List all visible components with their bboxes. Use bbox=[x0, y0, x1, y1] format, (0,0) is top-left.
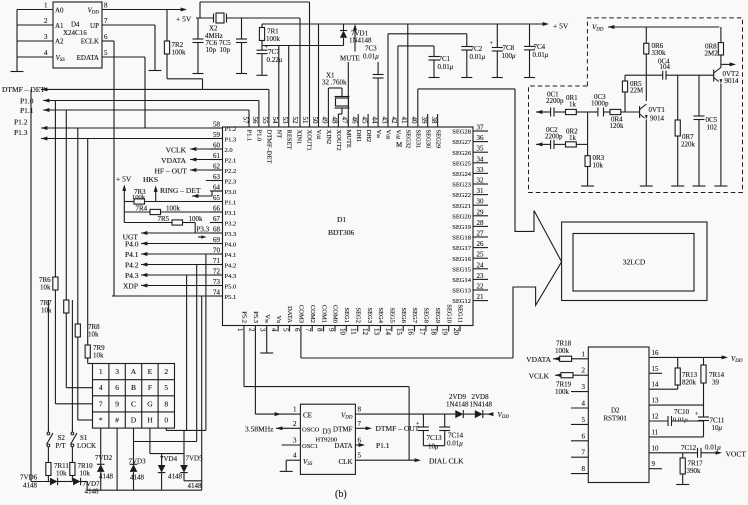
D2 pin12 wire with 7C10 bbox=[649, 420, 668, 422]
resistor 0R5 22M bbox=[624, 75, 626, 81]
D2 pin 3 stub bbox=[571, 391, 588, 393]
IC D4 X24C16 bbox=[53, 2, 102, 68]
svg-text:1: 1 bbox=[582, 350, 586, 358]
svg-text:13: 13 bbox=[652, 397, 660, 405]
svg-text:0.01μ: 0.01μ bbox=[470, 53, 486, 61]
D1 pin 58 P1.2 bbox=[210, 127, 223, 129]
svg-text:P4.1: P4.1 bbox=[225, 252, 237, 259]
wire DTMF-DET dropper far left bbox=[30, 89, 32, 481]
svg-text:SEG5: SEG5 bbox=[389, 307, 396, 323]
svg-text:68: 68 bbox=[213, 226, 221, 234]
D1 pin 70 P4.1 bbox=[210, 253, 223, 255]
svg-text:48: 48 bbox=[331, 117, 339, 125]
D1 pin 36 SEG27 bbox=[473, 141, 488, 143]
D1 pin 20 SEG11 bbox=[459, 326, 461, 332]
wire pin70 dropper bbox=[205, 254, 207, 430]
resistor 7R1 100k bbox=[261, 24, 263, 28]
wire pin57 P1.1 bbox=[248, 110, 250, 127]
diode 2VD8 1N4148 bbox=[475, 410, 483, 418]
wire pin43 to 7C2 bbox=[387, 34, 389, 127]
svg-text:1: 1 bbox=[293, 406, 297, 414]
resistor 7R17 390k bbox=[682, 453, 684, 458]
IC D2 RST901 bbox=[588, 347, 649, 483]
D1 pin 22 SEG13 bbox=[473, 289, 488, 291]
svg-text:D2: D2 bbox=[611, 407, 620, 415]
D4 pin 5 wire EDATA bbox=[102, 56, 145, 58]
resistor 7R14 39 bbox=[703, 357, 705, 365]
D1 pin 66 P3.1 bbox=[210, 211, 223, 213]
resistor 0R6 330k bbox=[645, 27, 647, 43]
svg-text:P5.0: P5.0 bbox=[225, 284, 237, 291]
svg-text:DIAL CLK: DIAL CLK bbox=[429, 457, 464, 466]
svg-text:8: 8 bbox=[164, 399, 168, 408]
input arrow 0C2 bbox=[536, 142, 542, 146]
svg-text:SEG8: SEG8 bbox=[423, 307, 430, 323]
svg-text:7C3: 7C3 bbox=[365, 45, 377, 53]
svg-text:XIN2: XIN2 bbox=[325, 130, 332, 145]
D1 pin 59 P1.3 bbox=[210, 138, 223, 140]
svg-text:47: 47 bbox=[341, 117, 349, 125]
svg-text:P1.1: P1.1 bbox=[246, 130, 253, 142]
wire pin54 NT to reset node bbox=[278, 46, 280, 128]
svg-text:X24C16: X24C16 bbox=[63, 29, 87, 37]
D3 pin6 DATA to P1.1 bbox=[355, 444, 362, 446]
svg-text:0.01μ: 0.01μ bbox=[363, 53, 379, 61]
ground 7R17 bbox=[676, 484, 689, 486]
D2 pin16 VDD wire bbox=[649, 356, 725, 358]
svg-text:51: 51 bbox=[301, 117, 309, 125]
svg-text:26: 26 bbox=[477, 240, 485, 248]
svg-text:820k: 820k bbox=[682, 379, 697, 387]
svg-text:SEG4: SEG4 bbox=[377, 307, 384, 323]
resistor 7R7 10k bbox=[64, 300, 69, 313]
svg-text:4: 4 bbox=[44, 49, 48, 57]
svg-text:F: F bbox=[148, 383, 152, 392]
capacitor 7C4 0.01u bbox=[529, 24, 531, 46]
svg-text:3: 3 bbox=[582, 383, 586, 391]
wire ECLK vertical to P5.1 row bbox=[113, 41, 115, 296]
svg-text:SEG15: SEG15 bbox=[452, 266, 471, 273]
resistor 7R19 100k bbox=[561, 373, 573, 378]
svg-text:120k: 120k bbox=[610, 122, 625, 130]
ground 0C5 bbox=[693, 185, 706, 187]
svg-text:57: 57 bbox=[241, 117, 249, 125]
svg-text:P5.3: P5.3 bbox=[252, 311, 259, 323]
D2 pin 15 stub bbox=[649, 372, 662, 374]
svg-text:SEG22: SEG22 bbox=[452, 192, 471, 199]
resistor 0R7 220k bbox=[677, 75, 679, 120]
svg-text:VDD: VDD bbox=[341, 412, 353, 421]
svg-text:7: 7 bbox=[304, 328, 312, 332]
svg-text:SEG27: SEG27 bbox=[452, 139, 472, 146]
wire pin71 dropper bbox=[196, 265, 198, 442]
svg-text:31: 31 bbox=[477, 187, 485, 195]
svg-text:XDP: XDP bbox=[123, 282, 138, 291]
svg-text:HF – OUT: HF – OUT bbox=[154, 167, 187, 176]
svg-text:VDD: VDD bbox=[731, 355, 743, 364]
+5V supply label bbox=[181, 8, 187, 12]
svg-text:P1.1: P1.1 bbox=[20, 106, 34, 115]
D4 pin 7 wire UP bbox=[102, 24, 155, 26]
svg-text:HKS: HKS bbox=[143, 175, 158, 184]
svg-text:Vss: Vss bbox=[263, 314, 270, 323]
svg-text:39: 39 bbox=[712, 379, 720, 387]
ground UP bbox=[149, 70, 162, 72]
ground D3 bbox=[280, 470, 293, 472]
svg-text:22: 22 bbox=[477, 283, 485, 291]
svg-text:10k: 10k bbox=[56, 470, 67, 478]
svg-text:SEG25: SEG25 bbox=[452, 160, 471, 167]
svg-text:RING – DET: RING – DET bbox=[160, 186, 201, 195]
D1 pin 16 SEG7 bbox=[414, 326, 416, 332]
LCD display 32LCD bbox=[562, 222, 707, 301]
wire pin53 RESET bbox=[288, 46, 290, 128]
D1 pin 28 SEG19 bbox=[473, 225, 488, 227]
svg-text:SEG19: SEG19 bbox=[452, 224, 471, 231]
input arrow 0C1 bbox=[536, 110, 542, 114]
svg-text:4: 4 bbox=[99, 383, 103, 392]
svg-text:#: # bbox=[115, 416, 119, 425]
D1 pin 65 P1.1 bbox=[210, 201, 223, 203]
svg-text:SEG30: SEG30 bbox=[424, 130, 431, 149]
diode 2VD9 1N4148 bbox=[455, 410, 463, 418]
svg-text:12: 12 bbox=[361, 328, 369, 336]
D1 pin 64 P3.0 bbox=[210, 190, 223, 192]
svg-text:COM3: COM3 bbox=[298, 305, 305, 323]
diode 7VD1 1N4148 bbox=[343, 24, 345, 31]
svg-text:SEG29: SEG29 bbox=[434, 130, 441, 149]
svg-text:P3.1: P3.1 bbox=[225, 210, 237, 217]
svg-text:Vdd: Vdd bbox=[315, 130, 322, 140]
svg-text:17: 17 bbox=[418, 328, 426, 336]
svg-text:SEG31: SEG31 bbox=[415, 130, 422, 149]
svg-text:DH2: DH2 bbox=[365, 130, 372, 143]
D1 pin 72 P4.3 bbox=[210, 274, 223, 276]
svg-text:SEG26: SEG26 bbox=[452, 150, 472, 157]
svg-text:0.01μ: 0.01μ bbox=[533, 51, 549, 59]
svg-text:67: 67 bbox=[213, 215, 221, 223]
svg-text:Vtt: Vtt bbox=[275, 316, 282, 324]
svg-text:0.01μ: 0.01μ bbox=[705, 444, 721, 452]
wire link 441 bbox=[134, 441, 197, 443]
svg-text:S1: S1 bbox=[80, 434, 88, 442]
D2 pin 8 stub bbox=[571, 473, 588, 475]
D1 pin 37 SEG28 bbox=[473, 130, 488, 132]
svg-text:20: 20 bbox=[452, 328, 460, 336]
D1 pin 73 P5.0 bbox=[210, 285, 223, 287]
svg-text:*: * bbox=[99, 416, 103, 425]
svg-text:SEG14: SEG14 bbox=[452, 277, 472, 284]
D1 pin 27 SEG18 bbox=[473, 236, 488, 238]
svg-text:C: C bbox=[131, 399, 136, 408]
capacitor 0C5 102 bbox=[698, 75, 700, 116]
D1 pin 19 SEG10 bbox=[448, 326, 450, 332]
svg-text:2: 2 bbox=[44, 17, 48, 25]
D1 pin 4 VTT bbox=[277, 326, 279, 332]
svg-text:2200p: 2200p bbox=[545, 133, 563, 141]
svg-text:7C4: 7C4 bbox=[534, 43, 546, 51]
svg-text:D4: D4 bbox=[71, 21, 80, 29]
svg-text:100k: 100k bbox=[166, 205, 181, 213]
wire Vss pin3 ground bbox=[266, 326, 268, 353]
svg-text:21: 21 bbox=[477, 293, 485, 301]
svg-text:D1: D1 bbox=[337, 215, 346, 224]
wire pin63 stub bbox=[206, 180, 223, 182]
svg-text:2: 2 bbox=[247, 328, 255, 332]
D1 pin 15 SEG6 bbox=[402, 326, 404, 332]
LCD bus arrow bbox=[515, 89, 562, 262]
wire row3 entry bbox=[55, 403, 92, 405]
wire pin51 XOUT1 bbox=[309, 2, 311, 127]
wire 7R2 bottom to DTMF-DET line bbox=[167, 78, 203, 80]
D3 pin5 CLK DIAL CLK bbox=[355, 459, 418, 461]
ground 7C6 bbox=[193, 73, 204, 75]
wire keypad col1 dropper bbox=[100, 428, 102, 464]
D2 pin10 wire with 7C12 bbox=[649, 452, 698, 454]
svg-text:P1.1: P1.1 bbox=[376, 441, 390, 450]
svg-text:P1.0: P1.0 bbox=[256, 130, 263, 142]
D1 pin 63 P2.3 bbox=[210, 180, 223, 182]
svg-text:10k: 10k bbox=[593, 162, 604, 170]
svg-text:100k: 100k bbox=[189, 215, 204, 223]
svg-text:MUTE: MUTE bbox=[345, 130, 352, 148]
svg-text:43: 43 bbox=[380, 117, 388, 125]
svg-text:44: 44 bbox=[370, 117, 378, 125]
D1 pin 24 SEG15 bbox=[473, 268, 488, 270]
D1 pin 14 SEG5 bbox=[391, 326, 393, 332]
transistor 0VT1 9014 bbox=[639, 106, 641, 118]
capacitor 7C8 100u bbox=[496, 24, 498, 48]
D2 pin13 wire bbox=[649, 404, 704, 406]
ground 7C1 bbox=[429, 77, 440, 79]
switch S2 P/T bbox=[47, 300, 49, 432]
ground 7C8 bbox=[492, 77, 503, 79]
svg-text:COM1: COM1 bbox=[320, 305, 327, 323]
resistor 7R2 bbox=[166, 10, 168, 42]
svg-text:P4.0: P4.0 bbox=[225, 242, 237, 249]
svg-text:SEG2: SEG2 bbox=[354, 307, 361, 323]
keypad matrix bbox=[93, 364, 175, 429]
svg-text:SEG9: SEG9 bbox=[434, 307, 441, 323]
svg-text:100k: 100k bbox=[132, 194, 146, 201]
svg-text:5: 5 bbox=[104, 49, 108, 57]
svg-text:A2: A2 bbox=[55, 38, 64, 46]
wire pin56 P1.0 bbox=[258, 101, 260, 128]
svg-text:H: H bbox=[147, 416, 153, 425]
capacitor 7C14 0.01u bbox=[444, 414, 446, 427]
svg-text:7C14: 7C14 bbox=[448, 432, 464, 440]
svg-text:34: 34 bbox=[477, 155, 485, 163]
svg-text:VCLK: VCLK bbox=[529, 372, 550, 381]
resistor 7R5 100k bbox=[124, 222, 172, 224]
svg-text:XOUT1: XOUT1 bbox=[305, 130, 312, 151]
svg-text:60: 60 bbox=[213, 142, 221, 150]
capacitor 7C3 0.01u on pin44 bbox=[377, 62, 379, 75]
D1 pin 34 SEG25 bbox=[473, 162, 488, 164]
svg-text:OSC1: OSC1 bbox=[302, 443, 318, 450]
svg-text:2.0: 2.0 bbox=[225, 147, 233, 154]
svg-text:0VT1: 0VT1 bbox=[649, 106, 666, 114]
svg-text:72: 72 bbox=[213, 268, 221, 276]
svg-text:SEG16: SEG16 bbox=[452, 256, 472, 263]
capacitor 7C7 0.22u bbox=[261, 46, 263, 51]
svg-text:37: 37 bbox=[477, 124, 485, 132]
wire UP to ground bbox=[154, 25, 156, 70]
svg-text:P5.1: P5.1 bbox=[225, 294, 237, 301]
capacitor 0C3 1000p bbox=[588, 111, 598, 113]
svg-text:SEG17: SEG17 bbox=[452, 245, 472, 252]
svg-text:7C2: 7C2 bbox=[471, 45, 483, 53]
diode 7VD4 4148 bbox=[161, 454, 163, 465]
svg-text:UP: UP bbox=[90, 22, 99, 30]
svg-text:2200p: 2200p bbox=[546, 97, 564, 105]
svg-text:100μ: 100μ bbox=[502, 52, 517, 60]
svg-text:7: 7 bbox=[99, 399, 103, 408]
svg-text:NT: NT bbox=[276, 130, 283, 139]
svg-text:15: 15 bbox=[652, 365, 660, 373]
crystal X1 32.768k bbox=[327, 88, 329, 127]
svg-text:104: 104 bbox=[660, 63, 671, 71]
svg-text:49: 49 bbox=[321, 117, 329, 125]
svg-text:100k: 100k bbox=[555, 347, 570, 355]
D1 pin 67 P3.2 bbox=[210, 222, 223, 224]
D1 pin 11 SEG2 bbox=[357, 326, 359, 332]
D2 pin 7 stub bbox=[571, 456, 588, 458]
svg-text:7: 7 bbox=[358, 420, 362, 428]
svg-text:16: 16 bbox=[652, 349, 660, 357]
svg-text:7VD3: 7VD3 bbox=[129, 458, 147, 466]
D2 pin14 wire bbox=[649, 388, 678, 390]
wire EDATA vertical to P1.2 row bbox=[144, 57, 146, 128]
svg-text:15: 15 bbox=[395, 328, 403, 336]
capacitor 7C2 0.01u bbox=[466, 34, 468, 47]
svg-text:45: 45 bbox=[361, 117, 369, 125]
wire input junction bbox=[587, 112, 589, 144]
svg-text:SEG3: SEG3 bbox=[366, 307, 373, 323]
svg-text:14: 14 bbox=[652, 381, 660, 389]
svg-text:4: 4 bbox=[582, 400, 586, 408]
wire pin72 dropper bbox=[186, 275, 188, 430]
svg-text:2: 2 bbox=[164, 367, 168, 376]
resistor 0R1 1k bbox=[566, 109, 577, 114]
svg-text:DH1: DH1 bbox=[355, 130, 362, 143]
svg-text:0.01μ: 0.01μ bbox=[673, 417, 688, 424]
svg-text:19: 19 bbox=[441, 328, 449, 336]
svg-text:1k: 1k bbox=[569, 101, 577, 109]
svg-text:71: 71 bbox=[213, 257, 221, 265]
svg-text:P4.3: P4.3 bbox=[225, 273, 237, 280]
svg-text:70: 70 bbox=[213, 247, 221, 255]
svg-text:(b): (b) bbox=[335, 489, 347, 500]
svg-text:P/T: P/T bbox=[56, 442, 67, 450]
svg-text:4: 4 bbox=[293, 452, 297, 460]
svg-text:390k: 390k bbox=[687, 467, 702, 475]
svg-text:10k: 10k bbox=[80, 470, 91, 478]
svg-text:D3: D3 bbox=[323, 428, 332, 436]
svg-text:55: 55 bbox=[261, 117, 269, 125]
D4 pin 2 wire A1 bbox=[17, 24, 53, 26]
D3 pin4 Vss bbox=[286, 459, 300, 461]
wire pin47 MUTE bbox=[347, 62, 349, 127]
ground 0VT2 bbox=[714, 185, 727, 187]
svg-text:42: 42 bbox=[390, 117, 398, 125]
svg-text:VDD: VDD bbox=[592, 24, 604, 33]
svg-text:VDATA: VDATA bbox=[161, 156, 186, 165]
svg-text:4148: 4148 bbox=[188, 482, 203, 490]
D4 pin 4 wire Vss bbox=[17, 56, 53, 58]
svg-text:30: 30 bbox=[477, 198, 485, 206]
svg-text:2: 2 bbox=[582, 367, 586, 375]
+5V rail arrow label bbox=[543, 22, 549, 26]
resistor 0R8 2M2 bbox=[720, 27, 722, 43]
D3 pin3 OSCI stub bbox=[282, 444, 301, 446]
svg-text:DTMF–DET: DTMF–DET bbox=[266, 130, 273, 164]
diode 7VD5 4148 bbox=[183, 430, 185, 465]
svg-text:50: 50 bbox=[311, 117, 319, 125]
D3 pin7 DTMF-OUT bbox=[355, 427, 369, 429]
wire pin40 SEG31 to LCD bus bbox=[417, 89, 419, 127]
svg-text:P2.1: P2.1 bbox=[225, 158, 237, 165]
resistor 7R4 100k bbox=[124, 211, 150, 213]
svg-text:1000p: 1000p bbox=[591, 100, 609, 108]
D1 pin 12 SEG3 bbox=[368, 326, 370, 332]
wire pin50 VDD to rail bbox=[318, 24, 320, 127]
svg-text:1N4148: 1N4148 bbox=[470, 401, 493, 409]
svg-text:SEG7: SEG7 bbox=[411, 307, 418, 323]
svg-text:P4.0: P4.0 bbox=[125, 240, 139, 249]
svg-text:CLK: CLK bbox=[339, 458, 353, 466]
svg-text:SEG10: SEG10 bbox=[445, 304, 452, 323]
svg-text:9: 9 bbox=[327, 328, 335, 332]
svg-text:28: 28 bbox=[477, 219, 485, 227]
wire P1.1 dropper bbox=[65, 110, 67, 300]
svg-text:S2: S2 bbox=[58, 434, 66, 442]
D1 pin 60 2.0 bbox=[210, 148, 223, 150]
svg-text:6: 6 bbox=[582, 432, 586, 440]
svg-text:10μ: 10μ bbox=[428, 443, 439, 451]
svg-text:24: 24 bbox=[477, 261, 485, 269]
svg-text:7VD6: 7VD6 bbox=[20, 474, 38, 482]
svg-text:7R4: 7R4 bbox=[136, 205, 148, 213]
svg-text:VSS: VSS bbox=[303, 458, 313, 467]
svg-text:Vdd: Vdd bbox=[385, 130, 392, 140]
svg-text:P1.3: P1.3 bbox=[225, 137, 237, 144]
resistor 7R3 100k bbox=[124, 201, 134, 203]
svg-text:VCLK: VCLK bbox=[166, 146, 187, 155]
capacitor 7C1 0.01u bbox=[433, 46, 435, 57]
wire link 480 bbox=[184, 480, 202, 482]
svg-text:+ 5V: + 5V bbox=[553, 22, 569, 31]
svg-text:P1.2: P1.2 bbox=[14, 118, 28, 127]
svg-text:6: 6 bbox=[104, 33, 108, 41]
capacitor 7C11 10u bbox=[698, 416, 709, 418]
D1 pin 21 SEG12 bbox=[473, 300, 488, 302]
D2 pin11 wire bbox=[649, 436, 704, 438]
svg-text:10k: 10k bbox=[41, 307, 52, 315]
svg-text:9014: 9014 bbox=[725, 77, 740, 85]
svg-text:56: 56 bbox=[251, 117, 259, 125]
svg-text:40: 40 bbox=[410, 117, 418, 125]
resistor 0R3 10k bbox=[587, 144, 589, 155]
svg-text:Vdd: Vdd bbox=[395, 130, 402, 140]
svg-text:RST901: RST901 bbox=[604, 415, 628, 423]
D1 pin 9 COM0 bbox=[334, 326, 336, 332]
svg-text:4148: 4148 bbox=[130, 474, 145, 482]
wire pin52 XIN1 bbox=[299, 18, 301, 127]
svg-text:13: 13 bbox=[372, 328, 380, 336]
svg-text:P2.3: P2.3 bbox=[225, 179, 237, 186]
ground 7C4 bbox=[524, 77, 535, 79]
